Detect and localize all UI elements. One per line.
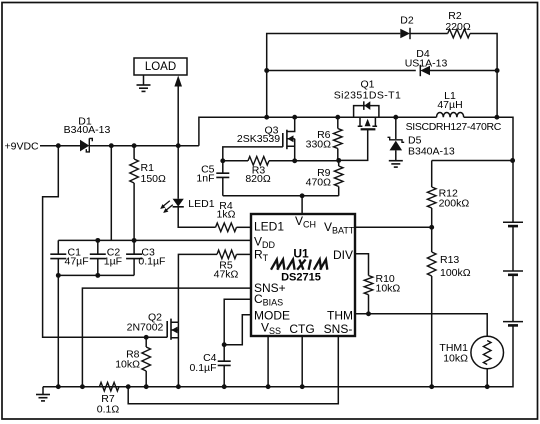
svg-text:0.1µF: 0.1µF xyxy=(138,255,165,267)
wire VCH stub xyxy=(301,196,303,214)
wire D5 top lead xyxy=(395,117,397,139)
capacitor C3 xyxy=(126,240,142,275)
resistor R3 xyxy=(248,157,269,166)
node C2 top xyxy=(95,238,100,243)
resistor R12 xyxy=(427,187,436,208)
node R10 bottom / THM xyxy=(366,311,371,316)
svg-text:2N7002: 2N7002 xyxy=(127,322,164,334)
node VSS gnd xyxy=(266,384,271,389)
wire VSS lead xyxy=(267,336,269,387)
node L1 right xyxy=(494,115,499,120)
svg-text:B340A-13: B340A-13 xyxy=(408,146,455,158)
svg-text:R13: R13 xyxy=(440,254,459,266)
resistor R1 xyxy=(130,159,139,183)
resistor R9 xyxy=(334,166,343,187)
wire R2 to right riser xyxy=(470,34,497,118)
wire D2 to R2 xyxy=(410,33,448,35)
resistor R6 xyxy=(334,129,343,149)
node C4 gnd xyxy=(222,384,227,389)
node THM1 gnd xyxy=(485,384,490,389)
svg-text:330Ω: 330Ω xyxy=(306,138,332,150)
wire Q3 drain lead xyxy=(287,117,295,131)
svg-text:VCH: VCH xyxy=(295,214,316,230)
wire after L1 to right corner xyxy=(464,117,513,160)
wire C5 bottom row to R9 bottom xyxy=(223,195,339,197)
battery cell B2 xyxy=(503,271,523,275)
node cap branch xyxy=(109,143,114,148)
wire R12 bottom lead xyxy=(431,208,433,227)
node R1 top xyxy=(132,143,137,148)
svg-text:THM: THM xyxy=(327,309,353,323)
svg-text:470Ω: 470Ω xyxy=(306,177,332,189)
resistor R5 xyxy=(217,250,237,259)
wire R4 to LED1 pin xyxy=(237,226,252,228)
svg-text:0.1Ω: 0.1Ω xyxy=(97,403,120,415)
svg-text:VBATT: VBATT xyxy=(324,220,355,236)
node R8 top xyxy=(144,335,149,340)
wire RT to R5 xyxy=(237,253,252,255)
node C3 top / R1 bottom xyxy=(132,238,137,243)
wire cap top rail xyxy=(58,239,251,241)
wire Q3 gate lead xyxy=(223,147,283,161)
wire R12 top run xyxy=(432,160,513,162)
svg-text:Si2351DS-T1: Si2351DS-T1 xyxy=(334,90,401,102)
node R8 gnd xyxy=(144,384,149,389)
node C5 top / Q3 gate xyxy=(220,158,225,163)
wire R9 leads xyxy=(338,160,340,166)
wire SNS- detour xyxy=(128,336,338,404)
resistor R10 xyxy=(364,276,373,295)
node R6 top xyxy=(335,115,340,120)
svg-text:47kΩ: 47kΩ xyxy=(214,269,239,281)
wire THM run xyxy=(355,314,487,336)
thermistor THM1 xyxy=(471,336,504,369)
node R7 right / sense xyxy=(126,384,131,389)
node Q3 drain xyxy=(292,115,297,120)
capacitor C2 xyxy=(90,240,106,275)
node D5 top xyxy=(393,115,398,120)
wire R9 bottom lead xyxy=(338,187,340,196)
svg-text:200kΩ: 200kΩ xyxy=(439,198,470,210)
svg-text:0.1µF: 0.1µF xyxy=(189,362,216,374)
svg-text:1kΩ: 1kΩ xyxy=(217,209,236,221)
transistor Q2 xyxy=(167,319,178,387)
svg-text:10kΩ: 10kΩ xyxy=(376,283,401,295)
capacitor C1 xyxy=(50,240,66,275)
svg-text:2SK3539: 2SK3539 xyxy=(237,133,280,145)
svg-text:LED1: LED1 xyxy=(254,220,284,234)
wire MODE run xyxy=(224,315,251,345)
svg-text:47µF: 47µF xyxy=(65,255,89,267)
node D4 row left xyxy=(264,68,269,73)
node D4 row right xyxy=(495,68,500,73)
svg-text:MODE: MODE xyxy=(254,309,290,323)
wire R13 leads xyxy=(431,227,433,252)
resistor R8 xyxy=(142,347,151,371)
wire R10 bottom lead xyxy=(368,295,370,314)
wire R5 to Q2 drain xyxy=(178,254,217,322)
svg-text:U1: U1 xyxy=(293,246,309,260)
resistor R2 xyxy=(448,29,470,38)
resistor R13 xyxy=(427,252,436,276)
wire between cells 2-3 xyxy=(512,275,514,322)
node C1 bottom xyxy=(56,273,61,278)
node C4 top xyxy=(222,342,227,347)
svg-text:DIV: DIV xyxy=(333,248,353,262)
wire battery column top xyxy=(512,161,514,223)
wire R8 bottom lead xyxy=(145,371,147,387)
LOAD box xyxy=(134,58,187,75)
node LOAD/LED branch xyxy=(176,143,181,148)
diode D5 xyxy=(388,137,405,160)
wire R12 top lead xyxy=(431,161,433,188)
node VBATT divider xyxy=(429,225,434,230)
svg-text:SISCDRH127-470RC: SISCDRH127-470RC xyxy=(406,121,502,133)
svg-text:1µF: 1µF xyxy=(104,255,122,267)
wire R1 top lead xyxy=(133,146,135,159)
wire R6 bottom lead xyxy=(337,149,339,161)
wire D4 to right riser xyxy=(430,70,497,72)
svg-text:SNS-: SNS- xyxy=(324,322,353,336)
battery cell B3 xyxy=(503,322,523,326)
wire CBIAS run xyxy=(224,299,251,345)
svg-text:LOAD: LOAD xyxy=(145,61,176,73)
node Q2 source gnd xyxy=(176,384,181,389)
wire R3 to Q3 source node xyxy=(269,160,339,162)
svg-text:10kΩ: 10kΩ xyxy=(115,359,140,371)
battery cell B1 xyxy=(503,222,523,226)
wire LED top lead xyxy=(177,146,179,199)
diode D2 xyxy=(400,28,410,39)
svg-text:47µH: 47µH xyxy=(437,99,462,111)
diode D4 xyxy=(420,65,430,76)
inductor L1 xyxy=(437,112,464,117)
logo MAXIM xyxy=(271,260,327,270)
wire cap branch riser xyxy=(110,146,112,241)
transistor Q1 channel and gate xyxy=(358,117,377,129)
node SNS+ gnd xyxy=(80,384,85,389)
node R13 gnd xyxy=(429,384,434,389)
wire CTG lead xyxy=(301,336,303,387)
arrowhead into LOAD xyxy=(174,76,182,87)
svg-text:DS2715: DS2715 xyxy=(281,271,321,283)
wire C5top to R3 xyxy=(223,160,248,162)
transistor Q3 xyxy=(283,130,295,161)
svg-text:LED1: LED1 xyxy=(188,198,214,210)
node +9VDC branch A xyxy=(56,143,61,148)
node C2 bottom xyxy=(95,273,100,278)
svg-text:1nF: 1nF xyxy=(196,173,214,185)
svg-text:VSS: VSS xyxy=(261,320,281,336)
wire R6 top lead xyxy=(337,117,339,128)
resistor R4 xyxy=(216,223,237,232)
svg-text:100kΩ: 100kΩ xyxy=(440,267,471,279)
wire cap bottom rail xyxy=(58,274,134,276)
wire R13 bottom lead xyxy=(431,276,433,387)
node Q3 source xyxy=(292,158,297,163)
ground bottom-left xyxy=(36,387,50,401)
capacitor C4 xyxy=(218,345,231,387)
wire LED to R4 xyxy=(178,207,215,228)
svg-text:220Ω: 220Ω xyxy=(445,21,471,33)
wire 9V to Q2 gate xyxy=(43,146,168,338)
wire between cells 1-2 xyxy=(512,226,514,271)
transistor Q1 body-diode bridge xyxy=(354,101,379,117)
node CTG gnd xyxy=(300,384,305,389)
svg-text:10kΩ: 10kΩ xyxy=(443,353,468,365)
capacitor C5 xyxy=(216,161,229,196)
wire LOAD left leg xyxy=(143,75,145,85)
svg-text:150Ω: 150Ω xyxy=(141,173,167,185)
wire C1 bottom to ground rail xyxy=(57,275,59,386)
ground under D5 xyxy=(389,160,403,167)
svg-text:CTG: CTG xyxy=(289,322,314,336)
wire R8 top lead xyxy=(145,337,147,347)
svg-text:D2: D2 xyxy=(400,15,414,27)
wire DIV run xyxy=(355,254,369,276)
wire Q1 gate lead xyxy=(339,129,368,160)
node top rail riser xyxy=(264,115,269,120)
node battery top tap xyxy=(510,158,515,163)
ground under LOAD xyxy=(137,85,151,92)
node Q1 gate / R6 / R9 xyxy=(336,158,341,163)
wire D4 row left segment xyxy=(267,70,416,72)
LED LED1 xyxy=(160,199,184,213)
svg-text:B340A-13: B340A-13 xyxy=(64,124,111,136)
wire THM1 bottom lead xyxy=(486,369,488,387)
wire +9VDC to D1 anode xyxy=(40,145,81,147)
wire SNS+ run xyxy=(82,288,251,387)
wire riser to D2 row xyxy=(267,34,401,118)
wire D1 cathode to rail corner xyxy=(90,145,199,147)
wire rail jog up xyxy=(199,117,437,146)
op-amp U1 box xyxy=(251,214,355,336)
node C1 gnd xyxy=(56,384,61,389)
wire R1 bottom lead xyxy=(133,183,135,240)
svg-text:820Ω: 820Ω xyxy=(245,173,271,185)
wire VBATT run xyxy=(355,226,432,228)
resistor R7 xyxy=(99,382,119,391)
node VCH xyxy=(300,193,305,198)
diode D1 xyxy=(80,138,92,152)
svg-text:US1A-13: US1A-13 xyxy=(405,57,448,69)
svg-text:+9VDC: +9VDC xyxy=(5,141,40,153)
wire battery bottom xyxy=(43,325,513,386)
wire LOAD arrow riser xyxy=(177,84,179,146)
